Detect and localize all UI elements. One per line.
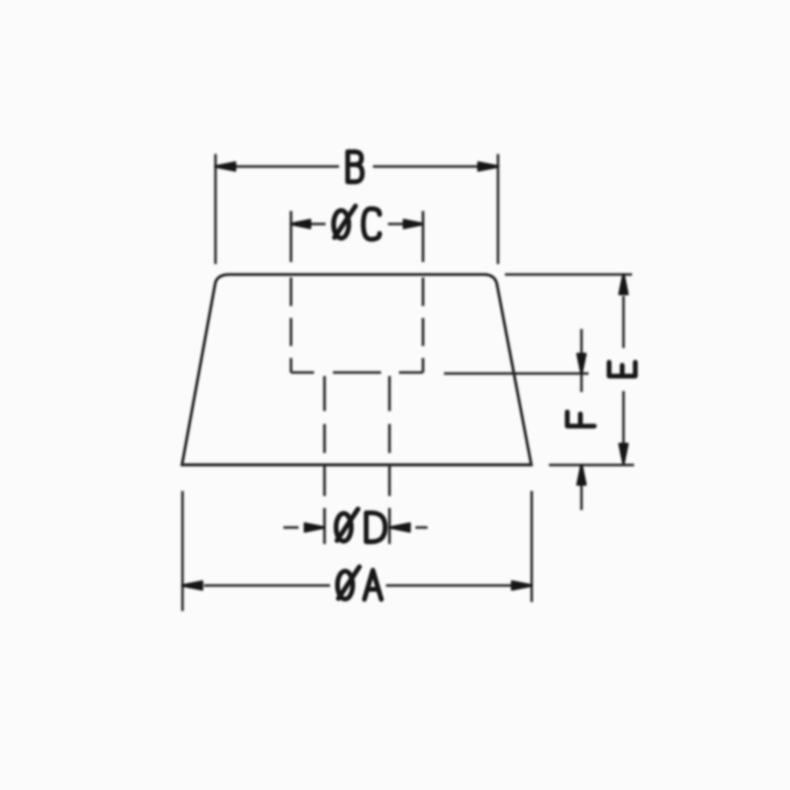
dimension F line top bbox=[580, 329, 583, 392]
dimension A extension line right bbox=[530, 491, 533, 602]
dimension B line bbox=[234, 165, 479, 168]
dimension E/F extension line bottom bbox=[549, 464, 634, 467]
dimension C line right tail bbox=[388, 223, 403, 226]
dimension E arrowhead top bbox=[620, 275, 628, 295]
label F (rotated) bbox=[567, 412, 594, 426]
extension line for F at step level bbox=[444, 372, 589, 375]
hidden recess wall left (extension of C) bbox=[290, 211, 293, 373]
dimension A arrowhead left bbox=[183, 582, 203, 590]
hidden recess wall right (extension of C) bbox=[422, 211, 425, 373]
label diameter symbol of A bbox=[338, 567, 360, 599]
dimension B arrowhead right bbox=[479, 163, 499, 171]
label B bbox=[348, 152, 363, 182]
hidden hole wall left (extension of D) bbox=[323, 376, 326, 544]
dimension F arrowhead bottom bbox=[578, 465, 586, 485]
dimension D line left tail bbox=[284, 526, 299, 529]
label E (rotated) bbox=[609, 362, 635, 376]
dimension C line left tail bbox=[311, 223, 326, 226]
dimension F line bottom bbox=[580, 465, 583, 510]
dimension A extension line left bbox=[181, 491, 184, 611]
dimension D arrowhead left (points right) bbox=[305, 524, 324, 532]
dimension A arrowhead right bbox=[512, 582, 532, 590]
dimension F arrowhead top bbox=[578, 354, 586, 373]
label C bbox=[363, 209, 379, 240]
label diameter symbol of D bbox=[336, 509, 358, 541]
label diameter symbol of C bbox=[334, 206, 356, 238]
dimension B arrowhead left bbox=[216, 163, 236, 171]
dimension D line right tail bbox=[416, 526, 428, 529]
dimension B extension line right bbox=[497, 154, 500, 264]
dimension E line bbox=[622, 296, 625, 444]
dimension B extension line left bbox=[214, 154, 217, 264]
dimension E arrowhead bottom bbox=[620, 444, 628, 464]
dimension C arrowhead left bbox=[291, 220, 310, 228]
dimension C arrowhead right bbox=[404, 220, 423, 228]
dimension E extension line top bbox=[505, 273, 632, 276]
label A bbox=[364, 570, 381, 599]
dimension A line bbox=[204, 584, 511, 587]
label D bbox=[366, 513, 385, 542]
hidden hole wall right (extension of D) bbox=[388, 376, 391, 544]
part outline: truncated cone bumper, side view bbox=[182, 275, 531, 465]
dimension D arrowhead right (points left) bbox=[391, 524, 410, 532]
hidden step line (bottom of recess C) bbox=[291, 371, 423, 374]
